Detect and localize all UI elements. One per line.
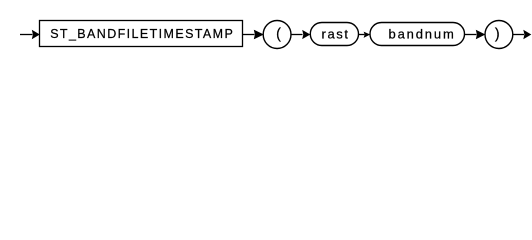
arrowhead into bandnum [364, 32, 371, 38]
wire ) to end [513, 34, 524, 36]
terminal bandnum [370, 23, 465, 46]
svg-text:): ) [495, 26, 500, 42]
end arrowhead [523, 30, 531, 40]
terminal ( [263, 21, 291, 49]
wire start segment [20, 34, 33, 36]
terminal rast [310, 23, 358, 46]
arrowhead into box [32, 30, 40, 40]
arrowhead into rast [302, 30, 310, 39]
wire rast to arrow [359, 34, 365, 36]
svg-text:ST_BANDFILETIMESTAMP: ST_BANDFILETIMESTAMP [50, 27, 233, 41]
box ST_BANDFILETIMESTAMP [40, 21, 243, 47]
wire box to ( [243, 34, 255, 36]
wire bandnum to arrow [465, 34, 477, 36]
svg-text:(: ( [276, 26, 281, 42]
arrowhead into ( [254, 30, 264, 40]
syntax diagram ST_BANDFILETIMESTAMP [0, 0, 532, 58]
svg-text:bandnum: bandnum [389, 26, 454, 41]
arrowhead into ) [476, 30, 486, 40]
wire ( to rast [291, 34, 303, 36]
terminal ) [485, 21, 513, 49]
